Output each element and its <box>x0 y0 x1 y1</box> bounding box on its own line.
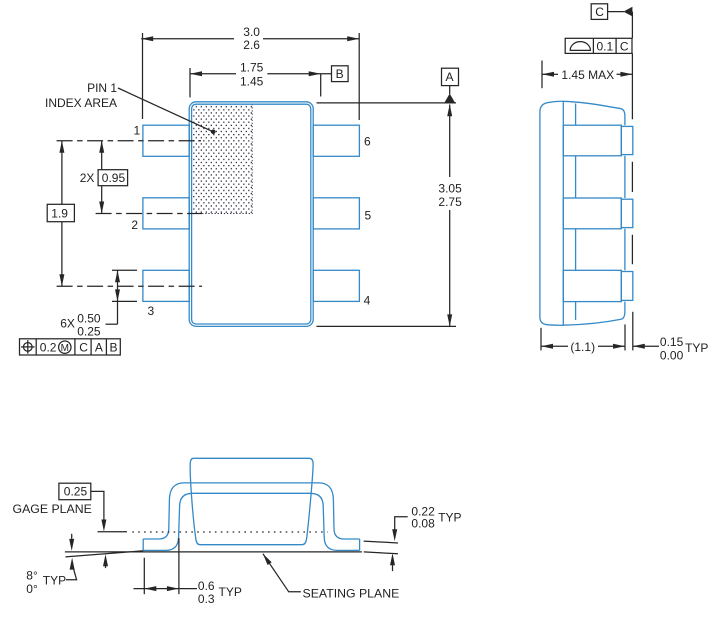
svg-text:5: 5 <box>365 208 372 222</box>
svg-text:2: 2 <box>131 218 138 232</box>
svg-text:0.2: 0.2 <box>40 340 57 354</box>
svg-text:A: A <box>95 340 103 354</box>
svg-text:3.0: 3.0 <box>243 25 260 39</box>
svg-text:1: 1 <box>134 124 141 138</box>
svg-text:0.25: 0.25 <box>77 324 101 338</box>
svg-text:1.9: 1.9 <box>51 207 68 221</box>
svg-text:TYP: TYP <box>438 511 461 525</box>
svg-text:GAGE PLANE: GAGE PLANE <box>13 502 92 516</box>
svg-text:0.00: 0.00 <box>660 348 684 362</box>
svg-text:2.75: 2.75 <box>438 195 462 209</box>
svg-text:2X: 2X <box>80 171 95 185</box>
svg-text:1.75: 1.75 <box>240 61 264 75</box>
svg-text:4: 4 <box>364 294 371 308</box>
svg-text:(1.1): (1.1) <box>570 340 595 354</box>
svg-text:0.95: 0.95 <box>102 171 126 185</box>
svg-text:0.25: 0.25 <box>64 485 88 499</box>
svg-text:PIN 1: PIN 1 <box>87 81 117 95</box>
svg-text:6X: 6X <box>60 317 75 331</box>
svg-text:3.05: 3.05 <box>438 182 462 196</box>
svg-text:C: C <box>595 5 604 19</box>
svg-text:TYP: TYP <box>43 574 66 588</box>
svg-text:0.08: 0.08 <box>411 517 435 531</box>
svg-text:INDEX AREA: INDEX AREA <box>45 96 117 110</box>
svg-text:1.45: 1.45 <box>240 74 264 88</box>
svg-text:TYP: TYP <box>219 585 242 599</box>
svg-text:2.6: 2.6 <box>243 38 260 52</box>
svg-text:M: M <box>61 343 69 354</box>
svg-text:C: C <box>620 39 629 53</box>
svg-text:0.1: 0.1 <box>597 39 614 53</box>
svg-text:0.6: 0.6 <box>198 579 215 593</box>
svg-text:SEATING PLANE: SEATING PLANE <box>303 587 400 601</box>
svg-text:TYP: TYP <box>685 341 708 355</box>
svg-text:6: 6 <box>364 134 371 148</box>
svg-text:0°: 0° <box>26 582 38 596</box>
svg-text:0.50: 0.50 <box>77 311 101 325</box>
svg-text:C: C <box>79 340 88 354</box>
svg-text:B: B <box>110 340 118 354</box>
svg-text:0.15: 0.15 <box>660 335 684 349</box>
svg-text:8°: 8° <box>26 569 38 583</box>
svg-text:0.3: 0.3 <box>198 592 215 606</box>
svg-text:1.45 MAX: 1.45 MAX <box>561 68 614 82</box>
svg-text:A: A <box>446 70 454 84</box>
svg-text:3: 3 <box>148 304 155 318</box>
svg-text:B: B <box>336 67 344 81</box>
